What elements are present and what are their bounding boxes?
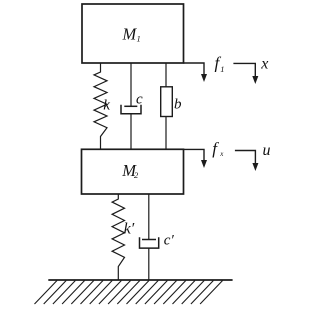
mass M1 box — [82, 4, 184, 63]
damper c' top rod — [148, 194, 150, 240]
damper c' piston plate — [142, 239, 156, 241]
spring k' — [112, 194, 124, 280]
coordinate x arrowhead — [252, 76, 258, 84]
svg-text:x: x — [219, 150, 224, 158]
svg-text:2: 2 — [134, 170, 139, 180]
damper b bottom rod — [165, 117, 167, 150]
svg-text:1: 1 — [220, 64, 224, 74]
ground line — [48, 279, 232, 281]
damper c' bottom rod — [148, 248, 150, 280]
ground hatching — [35, 281, 223, 305]
damper c piston plate — [124, 105, 137, 107]
svg-text:x: x — [260, 55, 268, 72]
svg-text:c′: c′ — [164, 233, 175, 249]
spring k — [94, 63, 107, 149]
damper c top rod — [130, 63, 132, 106]
svg-text:k′: k′ — [124, 221, 135, 238]
mass M2 box — [82, 149, 184, 194]
svg-text:M: M — [122, 25, 138, 44]
force f2 lead line — [184, 149, 205, 161]
force f1 lead line — [184, 63, 205, 76]
damper c bottom rod — [130, 114, 132, 150]
damper b box — [161, 87, 173, 117]
damper c cup — [121, 105, 141, 114]
svg-text:1: 1 — [137, 34, 141, 44]
coordinate u arrowhead — [252, 163, 258, 171]
damper c' cup — [140, 237, 159, 248]
coordinate u lead line — [235, 151, 256, 165]
svg-text:u: u — [263, 142, 271, 159]
svg-text:b: b — [174, 97, 182, 113]
force f1 arrowhead — [201, 74, 207, 82]
svg-text:c: c — [136, 91, 143, 107]
damper b top rod — [165, 63, 167, 87]
svg-text:f: f — [212, 139, 219, 158]
coordinate x lead line — [233, 63, 255, 77]
force f2 arrowhead — [201, 160, 207, 168]
svg-text:k: k — [103, 97, 110, 113]
